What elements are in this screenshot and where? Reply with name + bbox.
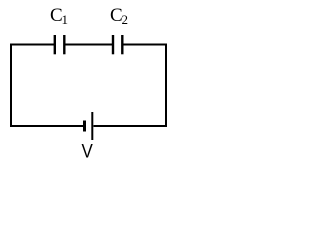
svg-text:1: 1	[62, 12, 69, 27]
svg-text:V: V	[82, 139, 94, 161]
svg-text:2: 2	[122, 12, 129, 27]
